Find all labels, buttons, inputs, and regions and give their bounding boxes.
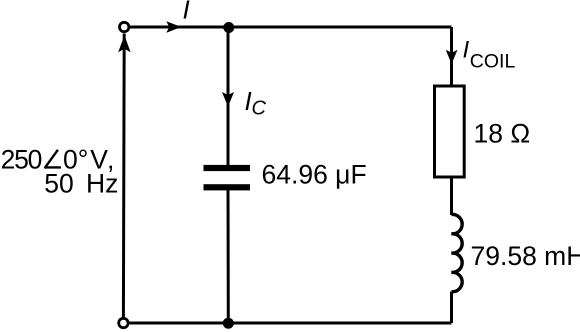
capacitor C 64.96 uF : top plate [204,165,251,171]
wire: bottom horizontal [130,322,452,325]
svg-text:79.58 mH: 79.58 mH [471,241,580,271]
svg-text:64.96 μF: 64.96 μF [262,160,367,190]
wire: right rail between resistor and coil [450,177,453,215]
symbol: angle in 250&#8736;0&#176; [44,150,61,168]
inductor L 79.58 mH (coil) [452,214,463,291]
wire: middle rail upper (node to capacitor) [227,27,230,166]
terminal: top-left open circle [120,22,129,31]
svg-text:Hz: Hz [86,168,118,198]
capacitor C 64.96 uF : bottom plate [204,184,251,190]
label: source value 250&#8736;0&#176; V, 50 Hz [1,144,119,198]
terminal: bottom-left open circle [119,318,128,327]
svg-text:50: 50 [44,168,73,198]
wire: middle rail lower (capacitor to bottom) [227,190,230,324]
node: top junction dot [223,22,234,33]
svg-text:I: I [183,0,190,24]
arrow: current I (rightward on top wire) [166,21,181,32]
svg-text:COIL: COIL [470,51,516,73]
svg-text:I: I [463,36,470,63]
node: bottom junction dot [223,318,234,329]
wire: left rail (source branch) [122,34,126,318]
arrow: current IC (downward on middle rail) [222,92,234,107]
arrow: source polarity (upward on left rail) [118,35,130,52]
wire: top horizontal (source to right branch) [130,26,452,29]
wire: right rail upper (top wire to resistor) [450,27,453,86]
svg-text:250: 250 [1,144,42,174]
svg-text:C: C [252,98,267,120]
wire: right rail lower (coil to bottom wire) [450,292,453,324]
arrow: current ICOIL (downward on right rail) [446,50,458,64]
svg-text:18 Ω: 18 Ω [474,119,531,149]
resistor R 18 ohm (box) [435,86,465,177]
